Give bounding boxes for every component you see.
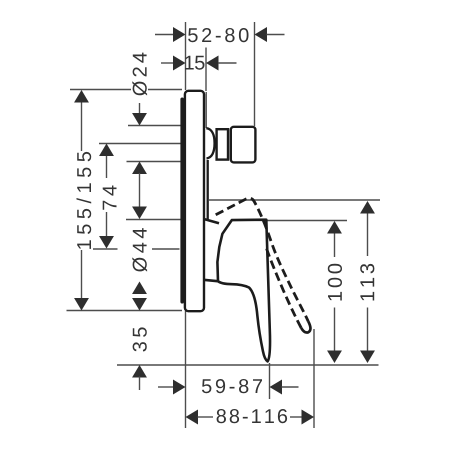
valve stem dome	[206, 128, 214, 158]
knob	[231, 127, 256, 163]
extension line hub-center y249	[93, 248, 118, 250]
arrow 35 bottom (outside, pointing up)	[132, 365, 147, 378]
label 74	[103, 186, 117, 210]
extension line knob-center y143.5	[99, 143, 181, 145]
lever base top edge	[205, 219, 219, 223]
arrow Ø44 bottom (outside, pointing up)	[132, 282, 147, 295]
label 35	[133, 327, 147, 351]
escutcheon plate	[185, 91, 204, 311]
lever raised position dashed	[216, 198, 309, 321]
dimension 15 top	[161, 62, 174, 64]
extension line wall-left x185.5 bottom	[185, 311, 187, 428]
arrow plate-bottom (outside, pointing down)	[132, 298, 147, 311]
extension line dashed-tip x314	[313, 329, 315, 428]
extension line dashed-lever-top y200	[209, 199, 380, 201]
stem cylinder	[217, 129, 228, 159]
label Ø24	[132, 53, 147, 96]
label Ø44	[132, 228, 147, 271]
arrow 74 bottom	[99, 236, 114, 249]
extension line knob-front x254.5	[254, 22, 256, 126]
dimension 74 vertical line x106.5	[106, 154, 108, 237]
dimension 100 vertical x334.5	[334, 232, 336, 352]
extension line plate-top y89.5	[70, 89, 131, 91]
lever base bottom edge	[205, 280, 219, 281]
dimension 52-80 top	[155, 34, 174, 36]
arrow 155 top	[74, 90, 89, 103]
dimension 113 vertical x367.5	[367, 212, 369, 352]
arrow 74 top	[99, 144, 114, 157]
extension line plate-front x206 top	[205, 48, 207, 92]
dimension 88-116 bottom	[186, 410, 199, 425]
escutcheon back sliver	[180, 98, 184, 304]
lever blade solid	[217, 220, 270, 362]
extension line plate-bottom y310.5	[67, 310, 183, 312]
extension line hub-top y219.5 left	[126, 219, 182, 221]
extension line lever-tip x269.5	[269, 363, 271, 399]
lever raised position dashed inner edge	[266, 246, 301, 328]
cartridge sleeve edge	[207, 160, 209, 220]
extension line knob-bottom y161.5	[127, 161, 182, 163]
label 113	[360, 264, 374, 301]
extension line lever-top y220.5 right	[267, 220, 347, 222]
dimension 155/155 vertical line x81.5	[81, 101, 83, 300]
arrow Ø24 bottom / Ø44 top shared tail	[132, 162, 147, 175]
dimension 59-87 bottom	[158, 386, 174, 388]
extension line bottom y365	[117, 364, 379, 366]
arrow Ø24 top (outside, pointing down)	[139, 103, 141, 114]
label 155/155	[77, 152, 92, 249]
extension line wall-left x185.5 top	[185, 22, 187, 90]
extension line knob-top y125.5	[128, 125, 182, 127]
lever raised position dashed tip	[301, 321, 310, 332]
arrow 155 bottom	[74, 298, 89, 311]
label 100	[328, 264, 342, 301]
